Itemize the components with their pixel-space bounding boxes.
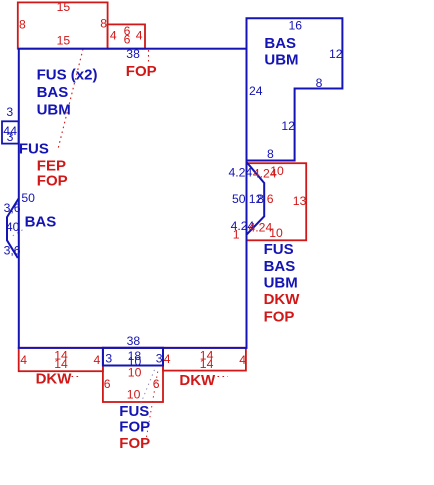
wall outline: small red room R2 [108, 24, 145, 48]
svg-text:FUS (x2): FUS (x2) [37, 66, 98, 83]
svg-text:UBM: UBM [37, 101, 71, 118]
wall outline: top-left red room R1 [18, 2, 108, 48]
svg-text:10: 10 [128, 365, 142, 379]
svg-text:12: 12 [281, 119, 295, 133]
svg-text:38: 38 [126, 47, 140, 61]
svg-text:14: 14 [200, 357, 214, 371]
svg-text:1: 1 [233, 228, 240, 242]
svg-text:12: 12 [329, 47, 343, 61]
svg-text:10: 10 [127, 387, 141, 401]
svg-text:FOP: FOP [37, 173, 68, 190]
svg-text:50: 50 [232, 192, 246, 206]
leader line red from FOP bottom [147, 370, 159, 437]
leader line red to FEP [58, 49, 83, 149]
svg-text:UBM: UBM [264, 52, 298, 69]
svg-text:FUS: FUS [264, 241, 294, 258]
svg-text:50: 50 [21, 191, 35, 205]
wall outline: right blue bay window [247, 162, 265, 235]
svg-text:FOP: FOP [119, 435, 150, 452]
svg-text:14: 14 [54, 357, 68, 371]
svg-text:15: 15 [57, 0, 71, 14]
svg-text:DKW: DKW [179, 372, 216, 389]
svg-text:6: 6 [267, 192, 274, 206]
svg-text:8: 8 [267, 147, 274, 161]
wall outline: top-right blue room BAS/UBM [247, 18, 343, 160]
svg-text:FOP: FOP [264, 308, 295, 325]
svg-text:4: 4 [20, 353, 27, 367]
svg-text:3,6: 3,6 [4, 243, 21, 257]
svg-text:10: 10 [270, 164, 284, 178]
leader line blue from FUS bottom [141, 370, 155, 404]
wall outline: right red room R3 [247, 163, 307, 240]
svg-text:DKW: DKW [36, 371, 73, 388]
svg-text:4.24: 4.24 [229, 166, 253, 180]
svg-text:6: 6 [104, 377, 111, 391]
svg-text:4: 4 [110, 28, 117, 42]
svg-text:15: 15 [57, 34, 71, 48]
leader line red from DKW right [218, 376, 229, 378]
svg-text:8: 8 [316, 76, 323, 90]
wall outline: bottom-left red strip R4 [19, 348, 103, 371]
wall outline: left small blue box [2, 121, 19, 143]
wall outline: bottom-middle red room R6 [103, 348, 163, 402]
svg-text:4: 4 [136, 28, 143, 42]
svg-text:8: 8 [257, 192, 264, 206]
leader line red to FOP top [148, 50, 150, 62]
leader line red from DKW left [72, 376, 82, 378]
svg-text:4: 4 [239, 353, 246, 367]
wall outline: bottom-right red strip R5 [163, 348, 246, 371]
svg-text:4: 4 [164, 352, 171, 366]
svg-text:8: 8 [100, 17, 107, 31]
svg-text:3: 3 [105, 352, 112, 366]
svg-text:13: 13 [293, 194, 307, 208]
svg-text:FOP: FOP [126, 63, 157, 80]
svg-text:4: 4 [94, 353, 101, 367]
wall outline: left blue bay window [7, 199, 19, 259]
svg-text:BAS: BAS [37, 84, 69, 101]
wall outline: main blue room [19, 49, 247, 348]
svg-text:6: 6 [153, 377, 160, 391]
wall outline: bottom-middle blue box [103, 348, 163, 366]
svg-text:FOP: FOP [119, 418, 150, 435]
svg-text:40: 40 [6, 220, 20, 234]
svg-text:6: 6 [124, 32, 131, 46]
svg-text:DKW: DKW [264, 291, 301, 308]
leader line blue from BAS left [13, 230, 23, 236]
svg-text:BAS: BAS [264, 35, 296, 52]
svg-text:3: 3 [156, 351, 163, 365]
svg-text:3: 3 [7, 130, 14, 144]
svg-text:3: 3 [6, 105, 13, 119]
svg-text:UBM: UBM [264, 274, 298, 291]
svg-text:38: 38 [127, 334, 141, 348]
svg-text:FUS: FUS [119, 403, 149, 420]
svg-text:3,6: 3,6 [4, 201, 21, 215]
svg-text:24: 24 [249, 84, 263, 98]
svg-text:16: 16 [289, 18, 303, 32]
svg-text:FUS: FUS [19, 141, 49, 158]
svg-text:8: 8 [19, 18, 26, 32]
svg-text:10: 10 [269, 226, 283, 240]
svg-text:BAS: BAS [25, 214, 57, 231]
svg-text:BAS: BAS [264, 258, 296, 275]
